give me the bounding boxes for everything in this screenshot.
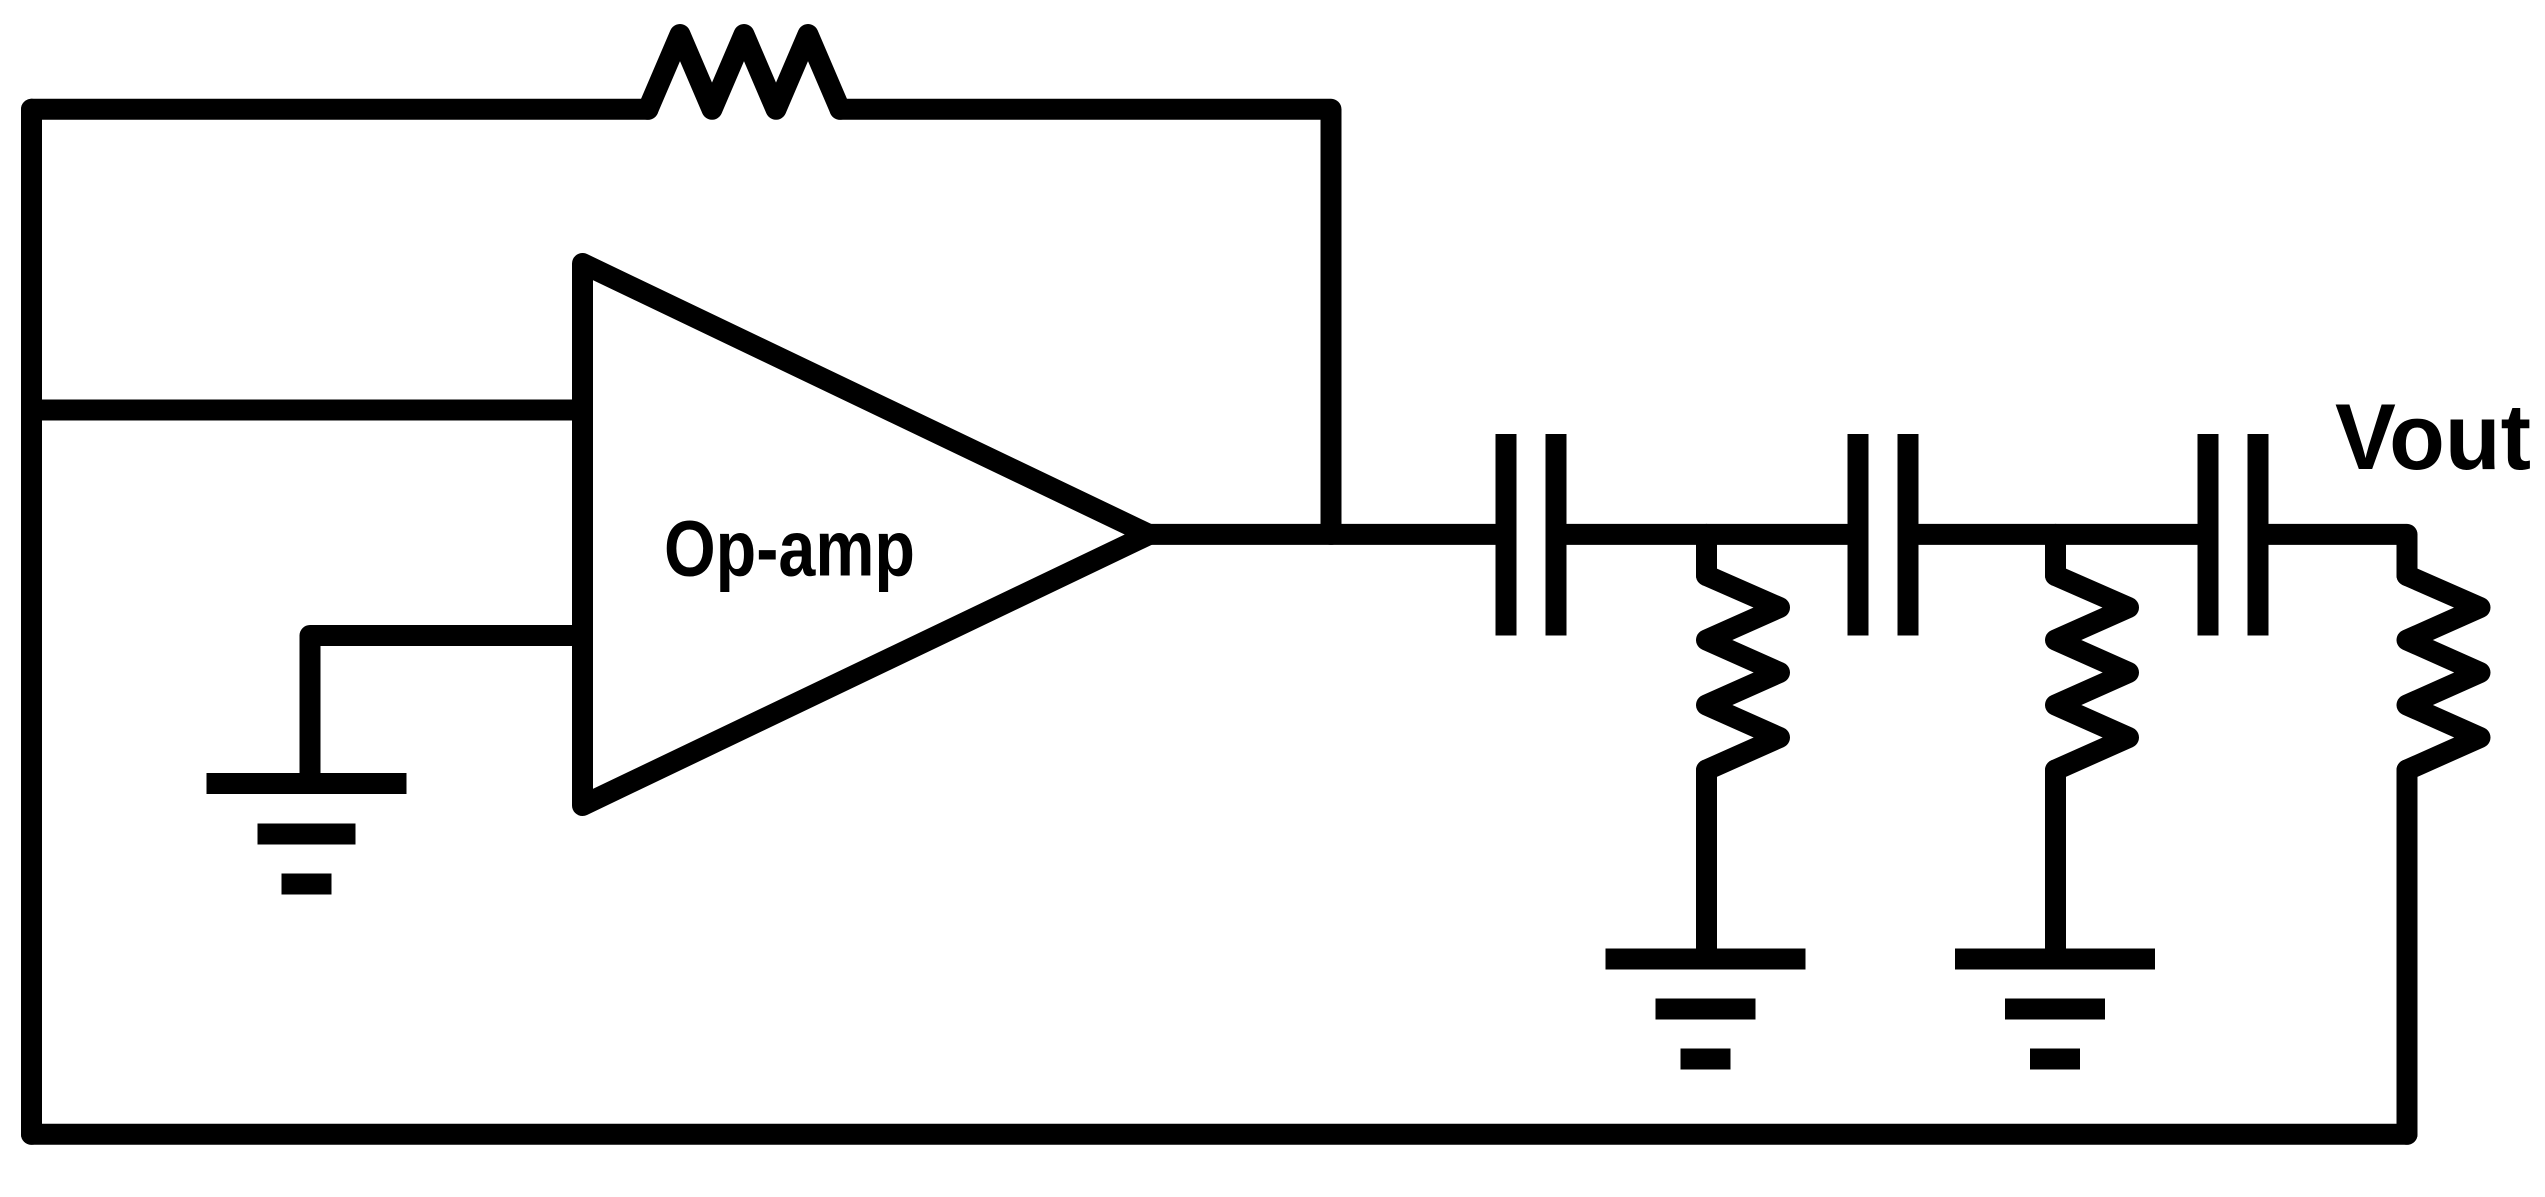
svg-text:Op-amp: Op-amp: [664, 504, 915, 593]
wire: C3 to right rail corner (Vout node): [2269, 534, 2407, 575]
capacitor C3 right plate: [2248, 434, 2269, 636]
ground G2 top bar: [1606, 949, 1806, 970]
ground G1 bottom bar: [282, 874, 332, 895]
ground G3 bottom bar: [2030, 1049, 2080, 1070]
wire: top feedback rail left segment: [32, 99, 649, 120]
ground G1 top bar: [207, 773, 407, 794]
wire: C2 to C3 node: [1919, 524, 2197, 545]
wire: C1 to C2 node: [1567, 524, 1847, 545]
ground G2 bottom bar: [1681, 1049, 1731, 1070]
resistor R3 (shunt 2): [2056, 576, 2129, 771]
wire: R2 to ground G2: [1696, 770, 1717, 959]
capacitor C1 right plate: [1546, 434, 1567, 636]
wire: op-amp output to C1: [1149, 524, 1495, 545]
ground G3 top bar: [1955, 949, 2155, 970]
op-amp U1: [583, 264, 1150, 806]
resistor R4 (load): [2407, 576, 2480, 771]
wire: top feedback rail right segment with drop to op-amp output: [840, 109, 1331, 534]
wire: bottom return rail: [32, 1124, 2408, 1145]
ground G3 middle bar: [2005, 999, 2105, 1020]
capacitor C2 left plate: [1848, 434, 1869, 636]
capacitor C3 left plate: [2198, 434, 2219, 636]
resistor R1 (feedback): [648, 35, 840, 110]
wire: non-inverting input with drop to ground G1: [310, 636, 583, 784]
wire: R4 to bottom rail: [2397, 770, 2418, 1134]
capacitor C2 right plate: [1898, 434, 1919, 636]
ground G2 middle bar: [1656, 999, 1756, 1020]
capacitor C1 left plate: [1496, 434, 1517, 636]
resistor R2 (shunt 1): [1707, 576, 1780, 771]
wire: junction stub to R2: [1696, 534, 1717, 575]
svg-text:Vout: Vout: [2335, 384, 2531, 489]
wire: junction stub to R3: [2045, 534, 2066, 575]
ground G1 middle bar: [258, 824, 356, 845]
wire: left input rail: [21, 109, 42, 1134]
wire: R3 to ground G3: [2045, 770, 2066, 959]
wire: inverting input: [32, 400, 583, 421]
